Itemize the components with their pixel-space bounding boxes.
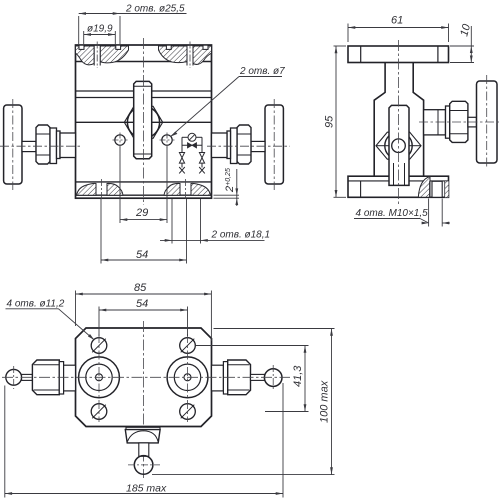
- dimension d19,9: [84, 24, 116, 45]
- bonnet hex nut front (face on): [124, 106, 162, 138]
- right valve: body connector: [212, 133, 228, 158]
- svg-text:ø19,9: ø19,9: [87, 24, 113, 35]
- bolt hole top-left: [91, 338, 107, 354]
- top flange local section hatch right of left hole: [100, 46, 128, 63]
- bolt hole bottom-left: [91, 404, 107, 420]
- bv left valve: connector: [64, 365, 76, 391]
- dimension 4 otv. M10x1,5: [354, 199, 450, 227]
- side valve: centerline: [419, 121, 500, 123]
- side valve: body connector: [424, 110, 446, 135]
- left valve: bonnet disc: [50, 128, 57, 164]
- bottom flange local section hatch left: [77, 179, 124, 201]
- bv main horizontal centerline: [2, 376, 290, 378]
- svg-text:61: 61: [391, 15, 403, 27]
- svg-text:2 отв. ø25,5: 2 отв. ø25,5: [125, 4, 185, 15]
- bv left valve: stem: [22, 374, 33, 380]
- left valve: centerline: [0, 145, 80, 147]
- bv right valve: gland hex nut: [228, 360, 251, 395]
- left valve: ring: [57, 131, 61, 159]
- dimension 61: [348, 15, 449, 43]
- schematic symbol: right vertical valve and vent: [199, 153, 205, 174]
- front body top flange bottom edge: [76, 61, 212, 63]
- svg-text:54: 54: [136, 249, 148, 261]
- dimension 2+0,25: [214, 168, 240, 206]
- dimension 41,3: [196, 346, 309, 412]
- bv left valve: handwheel top circle: [6, 366, 22, 389]
- side view vertical centerline: [398, 40, 400, 204]
- side handwheel disc edge-on: [389, 105, 409, 185]
- side threaded hole M10: [430, 181, 445, 197]
- right valve: ring: [227, 131, 231, 159]
- svg-text:41,3: 41,3: [292, 365, 304, 387]
- left valve: gland hex nut: [36, 125, 50, 164]
- svg-text:2 отв. ø18,1: 2 отв. ø18,1: [211, 230, 271, 241]
- svg-text:100 max: 100 max: [319, 380, 331, 423]
- side valve: handwheel: [477, 75, 498, 169]
- dimension 100 max: [152, 329, 335, 475]
- svg-text:54: 54: [136, 298, 148, 310]
- bv bottom valve: washer band: [126, 427, 160, 429]
- svg-text:29: 29: [135, 207, 148, 219]
- side bonnet hex (face on): [376, 132, 421, 159]
- bv right valve: stem: [251, 374, 265, 380]
- dimension 95: [324, 46, 347, 197]
- dimension 185 max: [5, 383, 283, 498]
- leader 2 otv. d7: [171, 66, 286, 137]
- side valve: ring: [446, 106, 450, 138]
- side top flange: [348, 46, 449, 63]
- left flange port outer circle: [79, 357, 120, 398]
- impulse hole right (2 otv. d7): [160, 133, 175, 148]
- top flange local section hatch right of right hole: [193, 46, 212, 64]
- left flange port center hole: [96, 374, 103, 381]
- front bottom flange top edge: [76, 181, 212, 183]
- front view vertical centerline: [143, 38, 145, 205]
- front body mid line: [76, 121, 212, 123]
- right flange port outer circle: [167, 357, 208, 398]
- right flange port center hole: [184, 374, 191, 381]
- bv bottom valve: gland hex nut: [125, 430, 160, 443]
- side valve: gland hex nut: [450, 101, 468, 142]
- dimension 54 (bottom view): [99, 298, 188, 336]
- left valve: body connector: [60, 133, 76, 158]
- front body step lines: [76, 91, 212, 98]
- dimension 29: [120, 147, 167, 224]
- svg-text:95: 95: [324, 115, 336, 128]
- hole column centerline right: [187, 334, 189, 422]
- bv bottom valve: stem: [139, 443, 149, 456]
- bolt hole bottom-right: [180, 404, 196, 420]
- schematic symbol: left vertical valve and vent: [179, 153, 185, 174]
- side bottom flange: [348, 176, 449, 197]
- impulse hole left (2 otv. d7): [113, 133, 128, 148]
- svg-text:2 отв. ø7: 2 отв. ø7: [239, 66, 285, 77]
- right valve: handwheel: [265, 99, 283, 190]
- dimension 2 otv. d18,1: [160, 199, 270, 244]
- right valve: gland hex nut: [237, 125, 251, 164]
- right valve: stem: [251, 141, 265, 151]
- schematic symbol: frame lines: [182, 137, 202, 152]
- schematic symbol: gauge circle: [188, 133, 196, 141]
- top flange local section hatch left of right hole: [159, 46, 188, 63]
- bv left valve: bonnet disc: [59, 362, 63, 394]
- bv right valve: connector: [212, 365, 224, 391]
- bottom flange local section hatch right: [164, 179, 211, 201]
- bv left valve: gland hex nut: [32, 360, 59, 395]
- front bottom flange step line: [76, 194, 212, 196]
- dimension 85: [76, 282, 212, 341]
- bv right valve: handwheel top circle: [264, 365, 282, 391]
- side valve: stem: [468, 117, 477, 127]
- hole column centerline left: [98, 334, 100, 422]
- bv bottom valve: handwheel top circle: [128, 456, 160, 475]
- top flange hole slot left: [94, 42, 100, 69]
- front body outline: [76, 45, 212, 198]
- top flange local section hatch left of left hole: [76, 46, 95, 65]
- leader 4 otv. d11,2: [6, 299, 95, 341]
- svg-text:185 max: 185 max: [126, 483, 167, 495]
- side web outline: [374, 63, 423, 177]
- left valve: stem: [22, 141, 36, 151]
- top flange counterbore notch left hole: [79, 45, 121, 49]
- side threaded hole local section hatch: [418, 177, 448, 198]
- handwheel disc edge-on (front valve): [134, 81, 152, 158]
- bottom view vertical centerline: [143, 321, 145, 478]
- dimension 54 (front): [101, 199, 187, 264]
- svg-text:4 отв. М10×1,5: 4 отв. М10×1,5: [356, 208, 429, 219]
- right flange port inner circle: [174, 364, 200, 390]
- top flange hole slot right: [187, 42, 193, 69]
- right valve: bonnet disc: [231, 128, 238, 164]
- side stem hole circle: [392, 139, 406, 153]
- top flange counterbore notch right hole: [166, 45, 208, 49]
- dimension 2 otv. d25,5: [79, 4, 187, 45]
- bolt hole top-right: [180, 338, 196, 354]
- schematic symbol: horizontal valve bowtie: [188, 143, 197, 148]
- left valve: handwheel: [4, 99, 22, 190]
- right valve: centerline: [207, 145, 290, 147]
- bv right valve: bonnet disc: [223, 362, 227, 394]
- left flange port inner circle: [86, 364, 112, 390]
- svg-text:4 отв. ø11,2: 4 отв. ø11,2: [7, 299, 65, 310]
- svg-text:85: 85: [134, 282, 147, 294]
- dimension 10: [450, 22, 474, 63]
- octagonal body: [76, 328, 212, 427]
